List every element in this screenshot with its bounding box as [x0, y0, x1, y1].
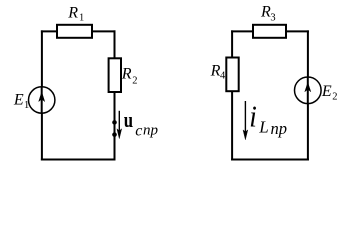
svg-text:E: E — [13, 92, 24, 109]
wire right loop: bottom branch — [231, 159, 309, 161]
svg-text:2: 2 — [132, 76, 137, 87]
source E1 — [29, 87, 55, 113]
svg-text:2: 2 — [332, 92, 337, 103]
resistor R3 — [253, 25, 286, 38]
resistor R4 — [226, 58, 238, 92]
svg-text:1: 1 — [24, 100, 29, 111]
wire left loop: left vertical branch — [41, 30, 43, 160]
node dot upper (capacitor terminal) — [112, 120, 117, 125]
wire left loop: bottom branch — [41, 159, 116, 161]
resistor R2 — [109, 58, 121, 92]
svg-text:i: i — [249, 100, 257, 134]
svg-text:3: 3 — [270, 13, 275, 24]
node dot lower (capacitor terminal) — [112, 132, 117, 137]
svg-text:пр: пр — [143, 122, 159, 138]
svg-text:4: 4 — [220, 70, 226, 81]
svg-text:u: u — [124, 107, 133, 132]
wire right loop: right vertical branch through E2 — [307, 30, 309, 160]
arrow u_C pr — [118, 111, 120, 133]
svg-text:R: R — [210, 62, 221, 79]
wire right loop: left vertical branch through R4 — [231, 30, 233, 160]
svg-text:R: R — [260, 4, 271, 21]
svg-text:1: 1 — [79, 12, 84, 23]
svg-text:R: R — [121, 66, 132, 83]
arrow i_L pr — [244, 101, 246, 134]
wire left loop: top branch through R1 — [41, 30, 116, 32]
svg-text:E: E — [321, 83, 332, 100]
svg-text:L: L — [258, 118, 268, 137]
svg-text:пр: пр — [271, 119, 288, 138]
svg-text:c: c — [135, 122, 142, 139]
svg-text:R: R — [67, 4, 78, 21]
resistor R1 — [57, 25, 92, 38]
wire right loop: top branch through R3 — [231, 30, 309, 32]
source E2 — [295, 77, 322, 104]
wire left loop: right vertical branch through R2 — [114, 30, 116, 160]
